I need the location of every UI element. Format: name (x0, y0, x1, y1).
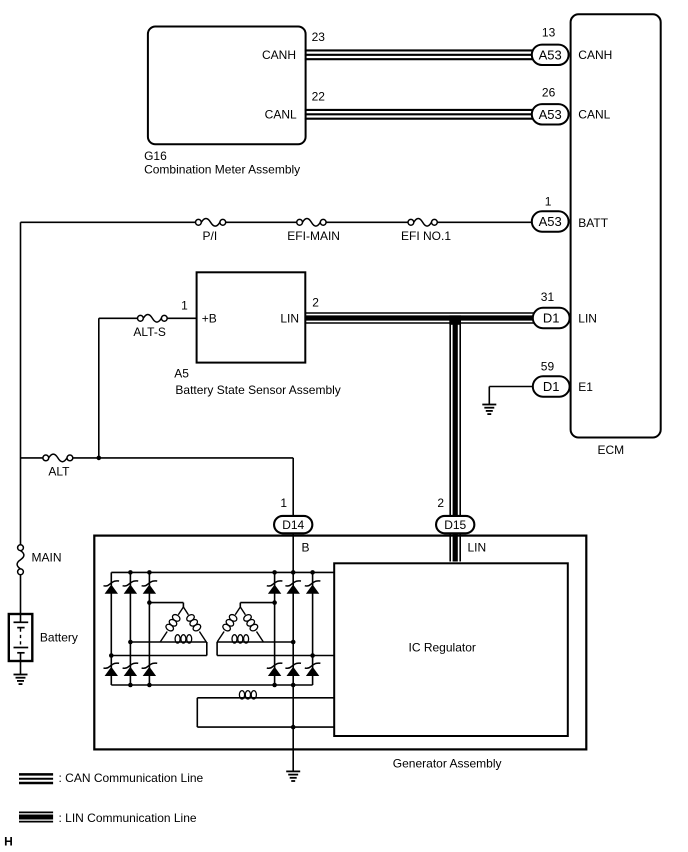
svg-text:22: 22 (312, 90, 326, 104)
svg-text:ALT: ALT (48, 465, 70, 479)
svg-text:H: H (4, 835, 13, 849)
svg-text:LIN: LIN (280, 312, 299, 326)
svg-text:LIN: LIN (468, 541, 487, 555)
svg-text:A53: A53 (539, 107, 562, 122)
svg-text:CANH: CANH (262, 48, 296, 62)
svg-text:1: 1 (280, 496, 287, 510)
svg-text:1: 1 (545, 194, 552, 208)
svg-text:ECM: ECM (598, 443, 625, 457)
svg-text:: LIN Communication Line: : LIN Communication Line (59, 811, 197, 825)
svg-text:E1: E1 (578, 380, 593, 394)
svg-text:: CAN Communication Line: : CAN Communication Line (59, 771, 204, 785)
svg-text:B: B (302, 541, 310, 555)
svg-text:26: 26 (542, 85, 556, 99)
svg-text:31: 31 (541, 290, 555, 304)
svg-text:23: 23 (312, 30, 326, 44)
svg-text:CANL: CANL (578, 108, 610, 122)
svg-text:D15: D15 (444, 518, 466, 532)
svg-text:D14: D14 (282, 518, 304, 532)
svg-text:A53: A53 (539, 47, 562, 62)
svg-text:EFI NO.1: EFI NO.1 (401, 229, 451, 243)
svg-text:Battery: Battery (40, 630, 78, 644)
svg-text:+B: +B (202, 312, 217, 326)
svg-text:Battery State Sensor Assembly: Battery State Sensor Assembly (175, 383, 340, 397)
svg-text:59: 59 (541, 360, 555, 374)
svg-text:D1: D1 (543, 311, 560, 326)
svg-text:D1: D1 (543, 379, 560, 394)
svg-text:MAIN: MAIN (32, 551, 62, 565)
svg-text:P/I: P/I (203, 229, 218, 243)
svg-text:LIN: LIN (578, 311, 597, 325)
svg-text:EFI-MAIN: EFI-MAIN (287, 229, 340, 243)
svg-text:13: 13 (542, 26, 556, 40)
svg-text:1: 1 (181, 299, 188, 313)
svg-text:Generator Assembly: Generator Assembly (393, 756, 502, 770)
svg-text:CANL: CANL (265, 108, 297, 122)
svg-text:IC Regulator: IC Regulator (409, 640, 476, 654)
svg-text:A53: A53 (539, 214, 562, 229)
svg-text:BATT: BATT (578, 216, 608, 230)
svg-text:2: 2 (312, 295, 319, 309)
svg-text:CANH: CANH (578, 48, 612, 62)
svg-text:Combination Meter Assembly: Combination Meter Assembly (144, 163, 300, 177)
svg-text:ALT-S: ALT-S (133, 325, 165, 339)
svg-text:A5: A5 (174, 367, 189, 381)
svg-text:G16: G16 (144, 149, 167, 163)
svg-text:2: 2 (437, 496, 444, 510)
